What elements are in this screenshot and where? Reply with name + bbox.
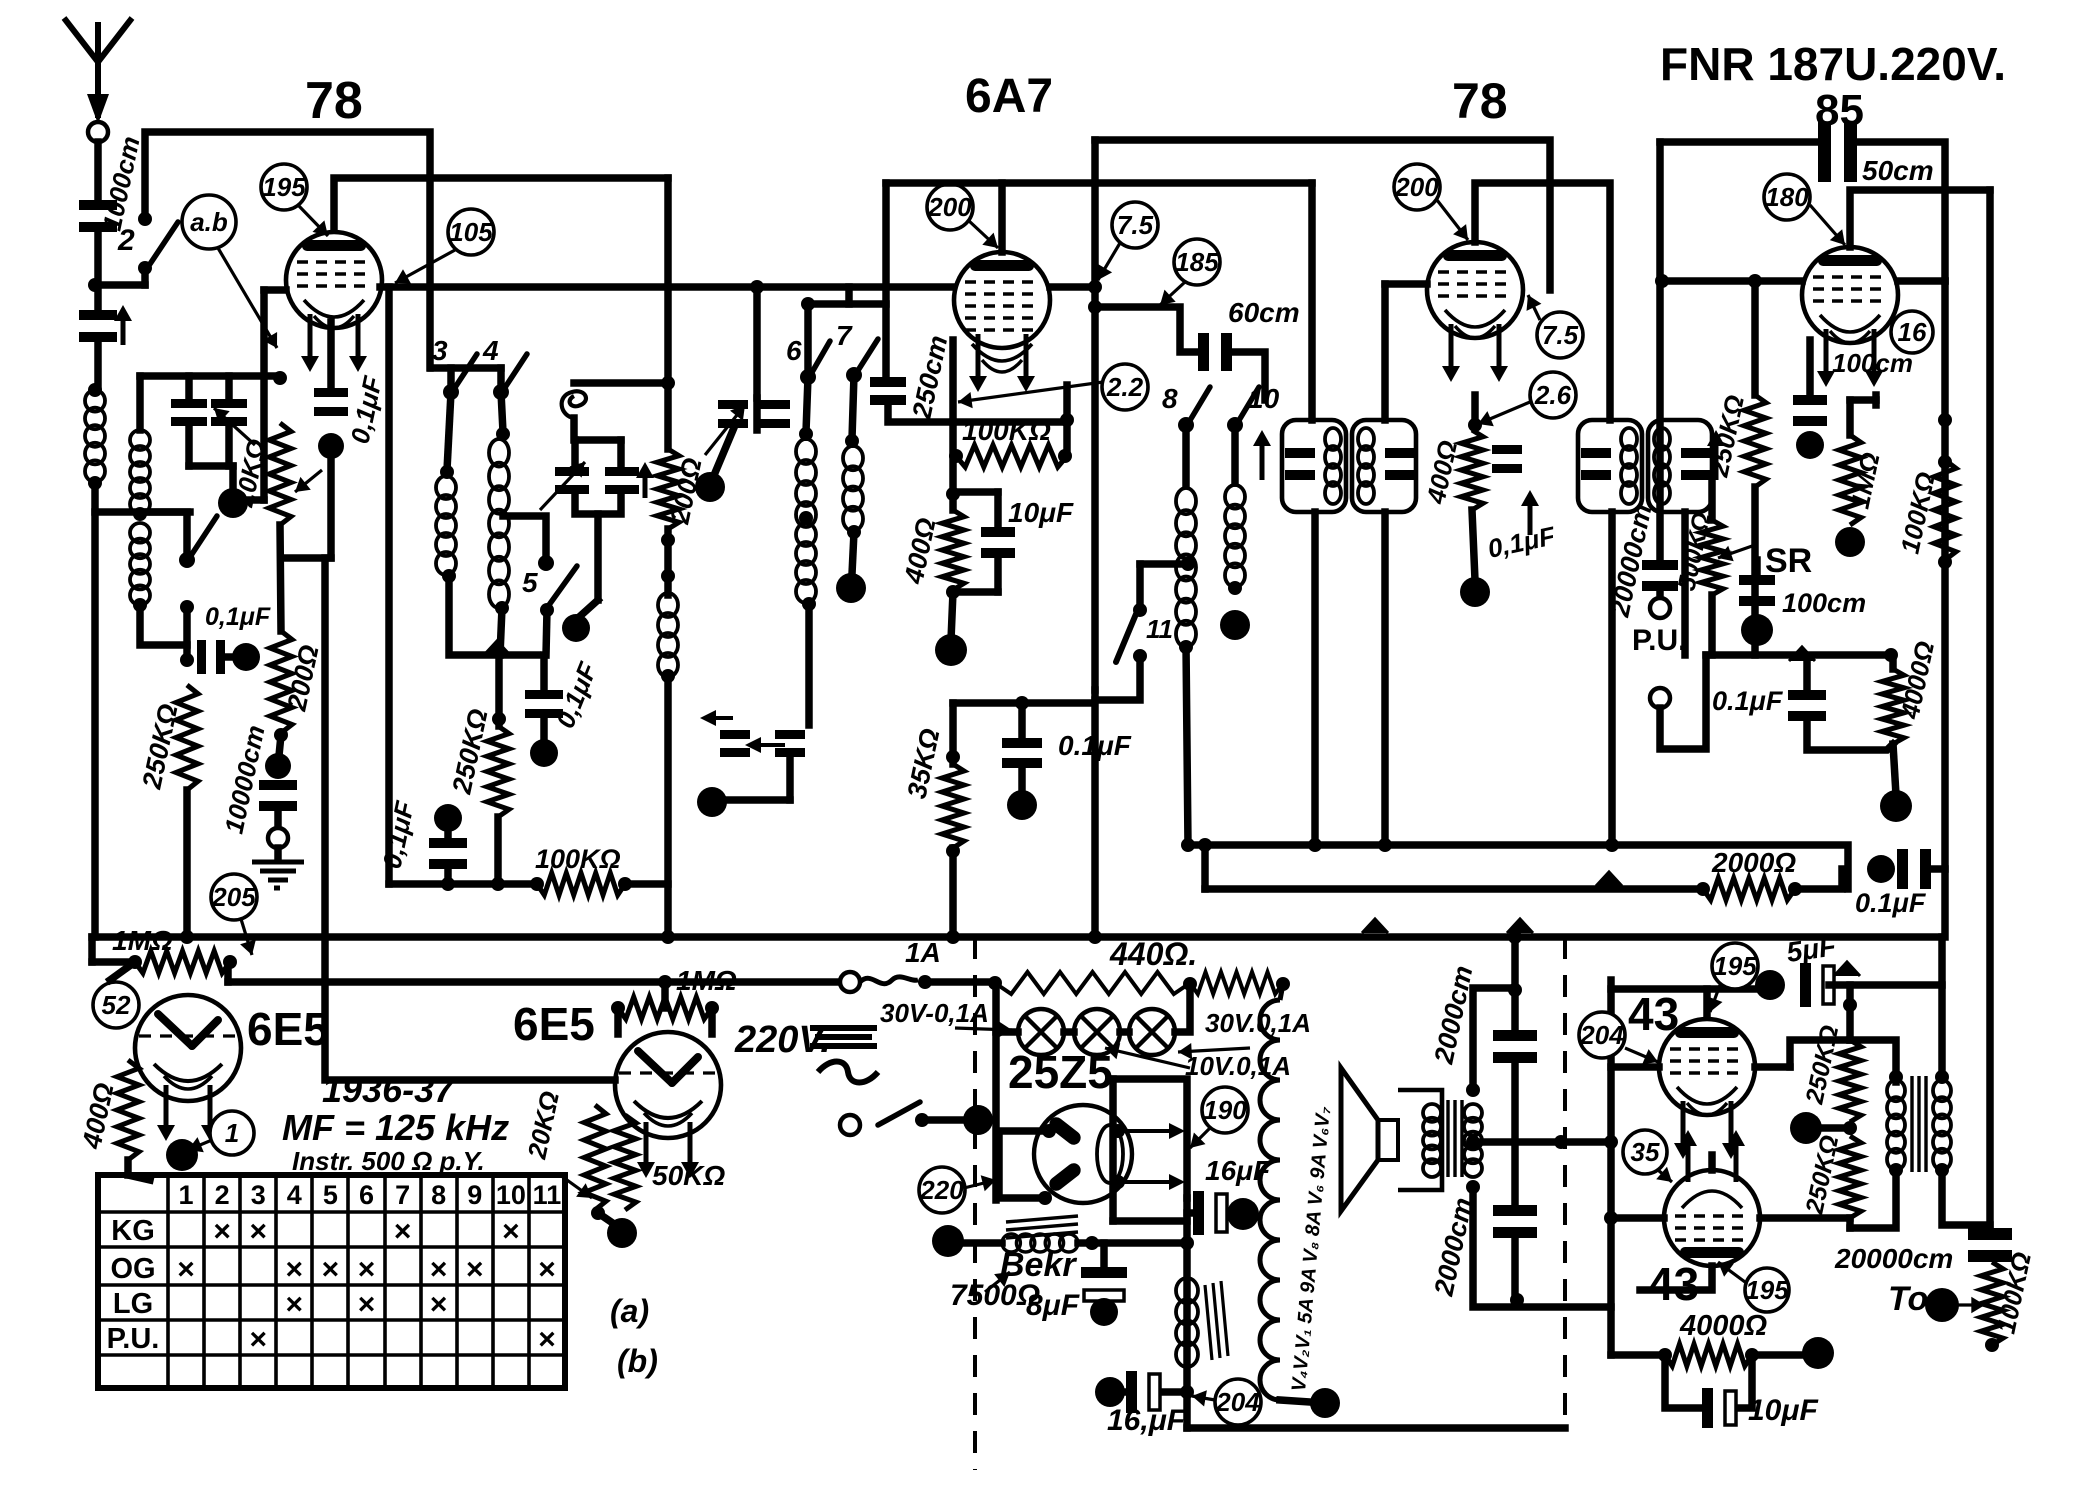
- ground symbol: [252, 862, 304, 888]
- wire IF1b grid: [1385, 280, 1427, 288]
- svg-text:6E5: 6E5: [513, 998, 595, 1050]
- svg-text:0.1μF: 0.1μF: [1712, 686, 1784, 716]
- tube 78 second IF: [1427, 242, 1523, 338]
- svg-text:35: 35: [1631, 1137, 1660, 1167]
- node busA 1188: [1181, 838, 1195, 852]
- wire bias cap low: [444, 870, 452, 884]
- wire 1M left: [92, 958, 135, 966]
- wire sw8 down: [1182, 425, 1190, 485]
- svg-text:7.5: 7.5: [1542, 320, 1579, 350]
- node 78b cath: [1468, 418, 1482, 432]
- chassis padder2: [697, 787, 727, 817]
- node coil8 mid: [1181, 557, 1195, 571]
- node 400 bot: [946, 585, 960, 599]
- node drvT topL: [1889, 1070, 1903, 1084]
- svg-text:11: 11: [533, 1180, 562, 1210]
- svg-text:60cm: 60cm: [1228, 297, 1300, 328]
- wire 6E5 cath: [128, 1175, 150, 1180]
- tuning coil L2b: [130, 523, 150, 543]
- resistor 50K 6E5: [614, 1115, 636, 1210]
- pot wiper: [1718, 545, 1755, 558]
- chassis L10: [1220, 610, 1250, 640]
- svg-text:1936-37: 1936-37: [322, 1069, 456, 1110]
- tube 6A7 mixer cathode arrow R: [1024, 334, 1029, 378]
- band coil L4: [489, 439, 509, 467]
- svg-text:205: 205: [211, 882, 256, 912]
- wire lamp out: [1175, 984, 1190, 1032]
- node 440 m: [1183, 977, 1197, 991]
- ref 16: [1891, 311, 1933, 353]
- svg-text:50KΩ: 50KΩ: [652, 1160, 725, 1191]
- wire sw3 stub: [447, 368, 455, 390]
- svg-text:4: 4: [287, 1180, 302, 1210]
- ref 1: [210, 1111, 254, 1155]
- node OT mid: [1466, 1135, 1480, 1149]
- wire 1M6E5 up: [661, 982, 669, 1008]
- pointer 185: [1160, 282, 1185, 305]
- padder arrow: [643, 476, 648, 498]
- node 2000 L: [1696, 882, 1710, 896]
- resistor 400 ohm 6A7: [942, 510, 964, 590]
- wire x668 top: [664, 178, 672, 449]
- pointer 75b: [1528, 295, 1540, 320]
- wire 250K85 up: [1751, 281, 1759, 395]
- resistor 1M 6E5: [618, 997, 712, 1019]
- wire osc top: [574, 379, 668, 387]
- wire left vertical to bus: [91, 512, 99, 937]
- svg-text:0.1μF: 0.1μF: [1855, 888, 1927, 918]
- choke hatching: [1205, 1281, 1228, 1360]
- padder down: [594, 514, 602, 600]
- wire 43b cath: [1708, 1155, 1716, 1170]
- wire sw6 down: [806, 377, 808, 432]
- svg-text:78: 78: [1452, 73, 1508, 129]
- svg-text:2.2: 2.2: [1106, 372, 1144, 402]
- wire 6E5b input: [325, 558, 615, 1080]
- svg-text:204: 204: [1579, 1020, 1624, 1050]
- ref 205: [211, 874, 257, 920]
- lamp 3: [1129, 1009, 1175, 1055]
- node antenna junction: [88, 278, 102, 292]
- wire 78b cath: [1471, 395, 1479, 425]
- chassis 1M: [1835, 527, 1865, 557]
- node coil top: [88, 383, 102, 397]
- wire sw1 down: [183, 607, 191, 657]
- chassis sw5: [562, 614, 590, 642]
- capacitor 0.1uF osc: [525, 690, 563, 699]
- terminal mains N: [840, 1115, 860, 1135]
- node coil6 top: [799, 427, 813, 441]
- IF2 tank 2 frame: [1648, 420, 1712, 512]
- ref 195 b: [1712, 943, 1758, 989]
- svg-text:190: 190: [1203, 1095, 1247, 1125]
- resistor 400 6E5: [117, 1060, 139, 1160]
- wire x389 screen: [385, 287, 393, 884]
- wire 0.1 SR: [1803, 661, 1811, 690]
- svg-text:×: ×: [322, 1253, 340, 1286]
- resistor 100K stage1: [537, 873, 625, 895]
- node 25Z5 p2: [1038, 1191, 1052, 1205]
- svg-text:KG: KG: [111, 1215, 155, 1247]
- junction bus B: [1596, 872, 1622, 886]
- node 4000 L: [1658, 1348, 1672, 1362]
- wire 250K to bus: [183, 790, 191, 937]
- wire bus left end: [88, 937, 96, 962]
- IF1 tank 1 frame: [1282, 420, 1346, 512]
- wire L8 to busA: [1186, 645, 1188, 845]
- node coil4 bot: [495, 601, 509, 615]
- ref 204 a: [1215, 1379, 1261, 1425]
- wire 1660 down: [1656, 142, 1664, 560]
- lamp 2: [1074, 1009, 1120, 1055]
- wire 25Z5 plate bracket: [999, 1131, 1049, 1198]
- oscillator loop: [562, 391, 586, 418]
- wire L2 tap: [142, 512, 187, 556]
- wire bias cap: [444, 826, 452, 838]
- coil L10: [1225, 485, 1245, 509]
- tube 78 first IF/RF: [286, 232, 382, 328]
- chassis 6A7 osc: [695, 472, 725, 502]
- driver transformer core: [1912, 1076, 1926, 1172]
- ref 180: [1764, 174, 1810, 220]
- pointer 200a: [968, 220, 998, 248]
- wire 20K-200: [280, 525, 281, 631]
- wire top grid lead: [145, 132, 430, 368]
- dashed divider 2: [1563, 937, 1567, 1428]
- wire mid cap feed: [540, 655, 548, 690]
- wire 43a plate link: [1755, 1063, 1790, 1071]
- chassis 78b: [1460, 577, 1490, 607]
- node 1945 y420: [1938, 413, 1952, 427]
- capacitor 0.1uF SR: [1788, 690, 1826, 700]
- padder diag arrow: [540, 462, 585, 510]
- capacitor IF2b: [1681, 448, 1711, 458]
- trim arrow: [121, 319, 126, 345]
- resistor 100K out: [1981, 1262, 2003, 1345]
- wire 250K2 feed: [495, 655, 503, 726]
- switch 10: [1227, 417, 1243, 433]
- wire lamp link2: [1120, 1028, 1129, 1036]
- wire bus main y937: [92, 933, 1942, 941]
- resistor 440 ohm b: [1190, 972, 1283, 994]
- wire lamp feed: [996, 1028, 1018, 1036]
- svg-text:100KΩ: 100KΩ: [535, 844, 621, 874]
- chassis 400: [935, 634, 967, 666]
- ref 2.2: [1102, 364, 1148, 410]
- svg-text:100cm: 100cm: [1782, 588, 1866, 618]
- coil IF2a: [1621, 428, 1637, 450]
- IF1 arrow: [1260, 444, 1265, 480]
- tube 25Z5 rectifier: [1034, 1105, 1132, 1203]
- wire cap to term: [274, 812, 282, 828]
- node 100K R: [618, 877, 632, 891]
- wire y884 a: [389, 880, 537, 888]
- wire 250K mid: [1806, 1124, 1850, 1132]
- chassis 0.1uF stage1: [318, 433, 344, 459]
- svg-text:×: ×: [177, 1253, 195, 1286]
- wire loop down: [570, 418, 578, 440]
- osc coil L6b: [796, 523, 816, 546]
- wire to ant coil: [94, 342, 102, 390]
- wire left frame: [992, 983, 1000, 1200]
- pointer ref1: [188, 1140, 212, 1150]
- node drvT topR: [1935, 1070, 1949, 1084]
- node sw1 low: [180, 600, 194, 614]
- ref 7.5 b: [1537, 312, 1583, 358]
- node 440 L: [988, 976, 1002, 990]
- svg-text:16: 16: [1898, 317, 1927, 347]
- switch 4: [493, 384, 509, 400]
- IF2 arrow: [1714, 444, 1719, 480]
- wire 1945 mid: [1941, 281, 1949, 937]
- padder stub L: [571, 440, 579, 467]
- node bus x187: [180, 930, 194, 944]
- chassis 100cm SR: [1741, 614, 1773, 646]
- node coil6 mid: [799, 511, 813, 525]
- svg-text:0,1μF: 0,1μF: [205, 603, 271, 631]
- wire end cap link: [1929, 865, 1945, 873]
- ref 185: [1174, 239, 1220, 285]
- tube 43 upper: [1659, 1019, 1755, 1115]
- wire L2 bot: [140, 605, 187, 645]
- junction bus main a: [1362, 919, 1388, 933]
- ref 220: [919, 1167, 965, 1213]
- capacitor 2000cm b: [1493, 1205, 1537, 1216]
- capacitor padder2 A: [775, 730, 805, 739]
- capacitor 0.1uF cathode1: [197, 640, 206, 674]
- node OT top: [1466, 1083, 1480, 1097]
- tube 43 lower arrow L: [1686, 1144, 1691, 1182]
- node L8 bot: [1179, 640, 1193, 654]
- wire y376: [140, 372, 280, 380]
- chassis cap sw1: [232, 643, 260, 671]
- wire 1M step: [224, 962, 232, 982]
- wire 4000b feed: [1611, 1351, 1662, 1359]
- resistor 2000 ohm: [1703, 878, 1795, 900]
- terminal PU 1: [1650, 598, 1670, 618]
- chassis 6E5a: [166, 1139, 198, 1171]
- capacitor 1000cm: [79, 200, 117, 210]
- node 250K85 top: [1748, 274, 1762, 288]
- svg-text:5: 5: [522, 567, 538, 598]
- chassis 6E5b: [607, 1218, 637, 1248]
- tube 6A7 mixer: [954, 252, 1050, 348]
- node bus x1095: [1088, 930, 1102, 944]
- wire bottom return: [1187, 1424, 1565, 1432]
- resistor 20K: [269, 423, 291, 525]
- node L2 bottom: [133, 598, 147, 612]
- band coil L3: [436, 476, 456, 499]
- terminal mains L: [840, 972, 860, 992]
- wire 85 topcap: [1850, 190, 1990, 247]
- pointer 30VR: [1178, 1048, 1250, 1052]
- capacitor IF2a: [1581, 448, 1611, 458]
- svg-text:6A7: 6A7: [965, 70, 1053, 123]
- chassis 16uF b: [1095, 1377, 1125, 1407]
- node y307: [1088, 300, 1102, 314]
- oscillator coil L5: [658, 593, 678, 617]
- svg-text:×: ×: [394, 1215, 412, 1248]
- chassis dot trimmer: [218, 488, 248, 518]
- pointer 20K: [560, 1175, 592, 1198]
- wire 6A7 topcap: [998, 183, 1006, 252]
- wire y703: [953, 699, 1094, 707]
- pointer 2.2: [958, 382, 1103, 402]
- pointer a.b: [218, 248, 277, 348]
- wire 8uF stub: [1100, 1243, 1108, 1267]
- wire bus B y889: [1205, 885, 1703, 893]
- svg-text:78: 78: [305, 72, 363, 130]
- node 25Z5 p1: [1042, 1124, 1056, 1138]
- wire 195 feed: [334, 178, 668, 229]
- chassis 8uF: [1090, 1298, 1118, 1326]
- chassis 4000 out: [1802, 1337, 1834, 1369]
- wire drvT botR: [1942, 1168, 1990, 1225]
- resistor 250K 85: [1744, 395, 1766, 487]
- speaker cone: [1341, 1068, 1378, 1211]
- node coil3 bot: [442, 569, 456, 583]
- chassis 200: [265, 753, 291, 779]
- svg-text:×: ×: [358, 1288, 376, 1321]
- node fuse: [918, 975, 932, 989]
- svg-text:(a): (a): [610, 1293, 649, 1329]
- svg-text:1MΩ: 1MΩ: [112, 925, 173, 956]
- wire 35K bus: [949, 848, 957, 937]
- pointer 200b: [1437, 200, 1468, 240]
- tube 85 detector cathode arrow L: [1824, 329, 1829, 373]
- wire 43a grid: [1611, 1063, 1659, 1071]
- wire x1990: [1986, 190, 1994, 1228]
- node 100K out bot: [1985, 1338, 1999, 1352]
- pointer 195b: [1710, 985, 1720, 1012]
- switch 6: [800, 369, 816, 385]
- mains switch: [878, 1102, 920, 1125]
- tube 6E5 first arrow L: [164, 1085, 169, 1127]
- svg-text:2.6: 2.6: [1534, 380, 1572, 410]
- node bekr junction: [1180, 1236, 1194, 1250]
- output transformer secondary: [1464, 1104, 1482, 1122]
- capacitor 85 50cm: [1818, 122, 1831, 182]
- node busA 1612: [1605, 838, 1619, 852]
- tube 85 detector cathode arrow R: [1872, 329, 1877, 373]
- svg-text:9: 9: [467, 1180, 482, 1210]
- capacitor 2000cm a: [1493, 1030, 1537, 1041]
- svg-text:220: 220: [919, 1175, 964, 1205]
- wire PU cap: [1656, 592, 1664, 598]
- svg-text:LG: LG: [113, 1288, 153, 1320]
- node 1515 bot: [1510, 1293, 1524, 1307]
- wire top 78-2 stage: [1095, 140, 1550, 290]
- pot arrow 20K: [295, 470, 322, 492]
- node SR right: [1884, 648, 1898, 662]
- wire 500K down: [1708, 595, 1716, 655]
- capacitor 400 bypass: [1492, 445, 1522, 454]
- resistor 100K 6A7: [956, 445, 1067, 467]
- IF1 tank 2 frame: [1352, 420, 1416, 512]
- resistor 1M agc: [135, 951, 230, 973]
- padder3 arrow: [714, 716, 733, 720]
- capacitor 8uF: [1081, 1267, 1127, 1278]
- switch 5 contact: [538, 555, 554, 571]
- wire y281 85L: [1662, 277, 1802, 285]
- wire 1188 down: [1183, 1243, 1191, 1428]
- svg-text:×: ×: [538, 1253, 556, 1286]
- wire tube1 cath down: [327, 322, 335, 388]
- capacitor 250cm: [870, 377, 906, 387]
- svg-text:10μF: 10μF: [1008, 497, 1074, 528]
- capacitor 10uF out: [1702, 1388, 1713, 1428]
- svg-text:×: ×: [213, 1215, 231, 1248]
- capacitor coupling 43: [1800, 963, 1811, 1007]
- wire grid bus y285: [380, 283, 952, 291]
- junction 43 cap: [1834, 962, 1860, 976]
- terminal gnd: [268, 828, 288, 848]
- padder box top: [575, 436, 621, 444]
- svg-text:180: 180: [1765, 182, 1809, 212]
- wire 1515 down: [1511, 937, 1519, 1030]
- pointer 75a: [1098, 243, 1120, 280]
- wire grid node: [95, 281, 145, 289]
- svg-text:To: To: [1888, 1280, 1928, 1318]
- mains bars: [810, 1028, 877, 1046]
- wire 4000 low: [1893, 744, 1896, 795]
- antenna: [64, 18, 132, 118]
- svg-text:200: 200: [927, 192, 972, 222]
- lamp 1: [1018, 1009, 1064, 1055]
- wire 10uF loop: [1665, 1355, 1700, 1408]
- wire 100cm2 stub: [1753, 560, 1761, 575]
- chassis 4000: [1880, 790, 1912, 822]
- node 1067: [1060, 413, 1074, 427]
- tube 6E5 second: [615, 1032, 721, 1138]
- capacitor 60cm: [1198, 333, 1209, 371]
- node coil bottom: [88, 476, 102, 490]
- node busA 1205: [1198, 838, 1212, 852]
- node x757: [750, 280, 764, 294]
- padder2 arrow L: [759, 743, 785, 747]
- svg-text:×: ×: [502, 1215, 520, 1248]
- wire PU return: [1660, 655, 1706, 749]
- wire 25Z5 out frame: [1113, 1079, 1187, 1198]
- wire pad chassis: [712, 430, 733, 480]
- svg-text:3: 3: [251, 1180, 266, 1210]
- gang arrow: [214, 408, 255, 445]
- node 35K bot: [946, 844, 960, 858]
- capacitor 10uF: [981, 527, 1015, 537]
- capacitor ant trim: [79, 310, 117, 320]
- wire 10uF loop R: [1740, 1355, 1752, 1408]
- wire 1M6E5 R: [708, 1008, 716, 1034]
- svg-text:195: 195: [1745, 1275, 1789, 1305]
- wire x264 down: [260, 290, 268, 500]
- node bus x953: [946, 930, 960, 944]
- node 1561: [1554, 1135, 1568, 1149]
- wire 1M6E5 L: [614, 1008, 622, 1034]
- switch 11 blade: [1116, 614, 1136, 662]
- resistor 1M 85: [1839, 435, 1861, 525]
- node 20K top: [273, 371, 287, 385]
- wire sw7 down: [852, 375, 854, 439]
- node 25Z5 k1: [1111, 1124, 1125, 1138]
- terminal bekr: [932, 1225, 964, 1257]
- pointer 2.6: [1478, 402, 1530, 424]
- resistor 400 78b: [1461, 430, 1483, 510]
- wire 10uF bot: [994, 560, 1002, 592]
- wire heater bottom: [1280, 1400, 1310, 1402]
- IF2 tank 1 frame: [1578, 420, 1642, 512]
- wire x757 to coils: [753, 398, 761, 430]
- svg-text:25Z5: 25Z5: [1008, 1046, 1113, 1098]
